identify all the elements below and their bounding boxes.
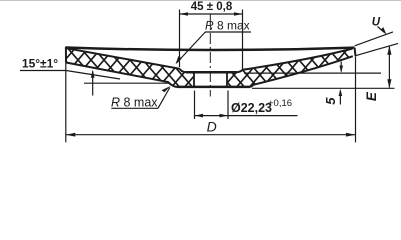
dim D right arrow <box>346 133 356 137</box>
bore dimension line with text shelf <box>195 115 298 117</box>
dim 5 lower arrow head <box>339 89 343 96</box>
R8 top label underline <box>205 31 251 33</box>
wheel top rim silhouette line <box>66 48 355 51</box>
dim 45 dimension line <box>180 13 243 15</box>
15 deg angle arrow tail <box>92 72 94 96</box>
hub bottom line <box>177 86 250 89</box>
dim E upper arrow <box>387 46 391 55</box>
dim U leader line <box>378 27 385 33</box>
left conical face edge <box>66 48 180 69</box>
dim 45 right arrow <box>234 12 243 16</box>
R8 top leader line <box>177 32 206 63</box>
right recess corner radius R8 <box>237 70 243 72</box>
hatched section, right half of wheel <box>227 49 353 87</box>
svg-text:R 8 max: R 8 max <box>111 96 158 110</box>
dim 45 left arrow <box>180 12 189 16</box>
R8 bottom leader line <box>158 88 170 109</box>
15 deg label underline <box>20 70 66 72</box>
depressed centre flat line <box>186 71 237 74</box>
R8 top leader arrow <box>176 56 182 64</box>
left recess corner radius R8 <box>180 69 186 72</box>
bore dim left extension line <box>194 91 196 120</box>
dim 5 upper arrow head <box>339 66 343 73</box>
bore right wall <box>226 72 228 87</box>
dim 45 right extension line <box>242 10 244 70</box>
15 deg horizontal reference line <box>84 82 170 84</box>
dim 45 left extension line <box>179 10 181 68</box>
left rim end face <box>65 47 67 63</box>
dim D left arrow <box>66 133 76 137</box>
bore dim right extension line <box>227 91 229 120</box>
svg-text:Ø22,23: Ø22,23 <box>231 101 272 115</box>
bore dim right arrow <box>220 114 229 118</box>
dim U leader arrow <box>380 27 386 35</box>
right rim end face <box>354 48 357 57</box>
dim 5 lower arrow tail <box>339 91 341 105</box>
dim E lower arrow <box>387 79 391 88</box>
vertical centerline (dash-dot) <box>209 14 211 97</box>
right bottom face edge <box>250 56 353 87</box>
bore left wall <box>193 72 195 87</box>
svg-text:45 ± 0,8: 45 ± 0,8 <box>191 1 233 13</box>
bore dim left arrow <box>195 114 204 118</box>
15 deg angle arrow head <box>91 70 95 78</box>
dim E dimension line <box>388 46 390 88</box>
svg-text:5: 5 <box>323 97 338 105</box>
dim 5 upper arrow tail <box>340 62 342 72</box>
svg-text:15°±1°: 15°±1° <box>22 56 58 70</box>
svg-text:E: E <box>364 91 379 101</box>
R8 bottom leader arrow <box>162 86 171 92</box>
15 deg leader line <box>66 71 120 80</box>
dim D left extension line <box>65 63 67 142</box>
dim D dimension line <box>66 134 356 136</box>
svg-text:+0,16: +0,16 <box>268 98 292 109</box>
left bottom face edge at 15 deg <box>66 63 177 87</box>
faint scan edge at top <box>0 0 401 2</box>
dim D right extension line <box>355 57 357 143</box>
right conical face edge <box>243 49 353 70</box>
svg-text:U: U <box>372 17 381 29</box>
svg-text:D: D <box>207 118 217 134</box>
hatched section, left half of wheel <box>66 47 194 87</box>
dim U upper extension line <box>355 32 393 46</box>
dim U lower extension line <box>355 43 398 55</box>
hub bottom extension line <box>252 87 395 89</box>
svg-text:R 8 max: R 8 max <box>205 19 250 33</box>
hub top extension line for dim 5 <box>244 72 381 74</box>
R8 bottom label underline <box>111 107 158 109</box>
